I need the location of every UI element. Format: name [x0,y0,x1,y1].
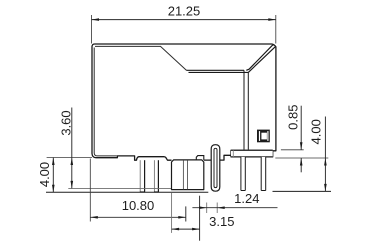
svg-text:1.24: 1.24 [234,191,259,206]
svg-text:0.85: 0.85 [285,105,300,130]
svg-text:3.60: 3.60 [59,110,74,135]
top-right chamfer double line [246,45,275,73]
dimension 1.24 [192,191,277,213]
pin R1 [241,157,245,191]
dimension 0.85 [285,105,302,173]
wide pin [172,160,204,190]
inner wall double line [244,70,248,149]
extension line short-pin tip plane (grey) [68,187,171,189]
pin L2 [154,160,159,192]
body inner left line [94,48,117,156]
body inner top line [95,46,187,70]
dimension 4.00 left [37,158,54,193]
svg-text:21.25: 21.25 [168,4,201,19]
extension line long-pin tip plane [46,191,208,193]
square window [257,130,270,143]
extension line foot top right (0.85 top) [281,149,304,151]
dimension 21.25 [92,4,276,44]
dimension 3.60 [59,108,74,189]
extension line seating plane left [47,157,92,159]
svg-text:3.15: 3.15 [209,214,234,229]
pin L1 [140,160,145,192]
U-shaped pin [211,145,220,192]
foot bar right [231,150,273,157]
extension line seating plane right [275,157,328,159]
dimension 4.00 right [309,117,327,192]
dimension 3.15 [172,193,235,241]
dimension 10.80 [90,159,186,222]
svg-text:10.80: 10.80 [122,198,155,213]
svg-text:4.00: 4.00 [37,162,52,187]
top shelf double line [187,70,249,72]
svg-text:4.00: 4.00 [309,119,324,144]
extension line pin tip plane right [273,190,332,192]
body outline [92,44,276,160]
wide pin top-right block [196,156,204,160]
pin R2 [261,157,266,191]
